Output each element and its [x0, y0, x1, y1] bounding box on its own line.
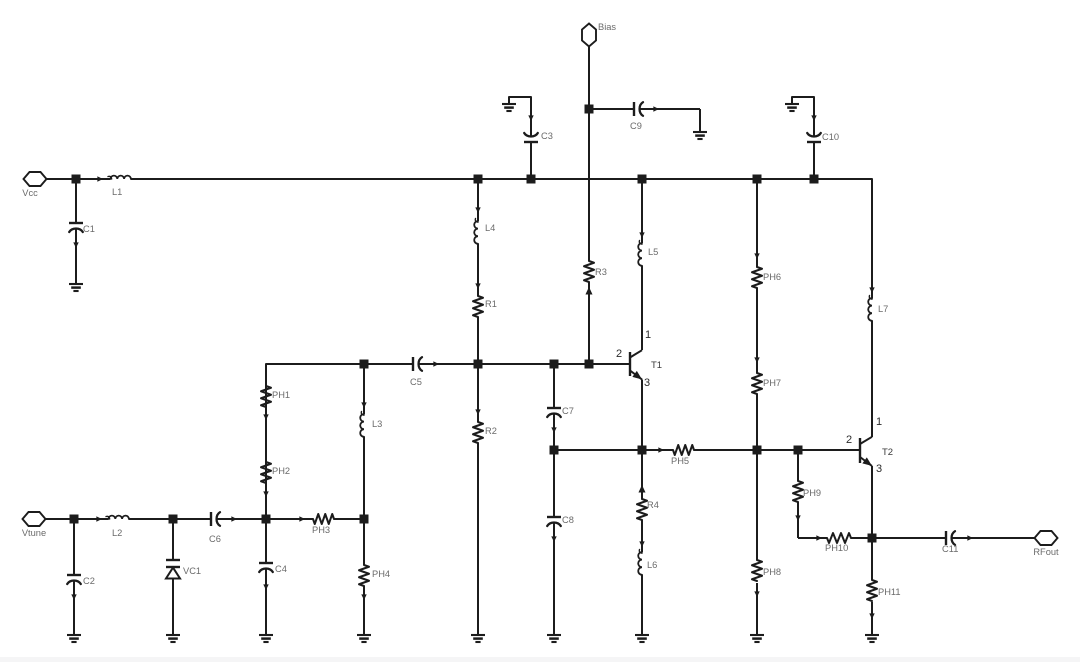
svg-text:PH10: PH10	[825, 543, 848, 553]
wire corner PH1 to mid line	[266, 364, 364, 519]
varactor diode VC1	[172, 519, 174, 560]
resistor R2	[477, 364, 479, 422]
resistor PH1	[261, 386, 271, 407]
resistor R1	[473, 296, 483, 317]
svg-text:C11: C11	[942, 544, 958, 554]
node PH9 top	[794, 446, 803, 455]
svg-text:C6: C6	[209, 534, 221, 544]
resistor PH5	[659, 448, 663, 452]
ground above C10	[785, 103, 799, 105]
port Bias	[582, 24, 596, 47]
node R3 bottom	[585, 360, 594, 369]
svg-text:C9: C9	[630, 121, 642, 131]
inductor L3	[363, 364, 365, 414]
svg-text:PH7: PH7	[763, 378, 781, 388]
node L5 top on rail	[638, 175, 647, 184]
ground below R2	[471, 634, 485, 636]
svg-text:C10: C10	[822, 132, 839, 142]
wire mid line right	[478, 363, 629, 365]
ground below L6	[635, 634, 649, 636]
resistor PH3	[266, 518, 313, 520]
resistor PH2	[261, 462, 271, 483]
node L3 top	[360, 360, 369, 369]
svg-text:VC1: VC1	[183, 566, 201, 576]
transistor T2	[859, 438, 861, 463]
node C7 top	[550, 360, 559, 369]
resistor PH11	[871, 538, 873, 580]
resistor PH8	[756, 450, 758, 560]
node PH4/L3	[360, 515, 369, 524]
transistor T1	[629, 352, 631, 376]
svg-text:L5: L5	[648, 247, 658, 257]
svg-text:Vcc: Vcc	[22, 188, 38, 198]
svg-text:L2: L2	[112, 528, 122, 538]
svg-text:PH6: PH6	[763, 272, 781, 282]
inductor L1	[76, 178, 110, 180]
svg-text:PH4: PH4	[372, 569, 390, 579]
resistor R4	[639, 486, 645, 492]
svg-text:PH3: PH3	[312, 525, 330, 535]
wire C3 ground stub	[509, 97, 531, 135]
node R1/R2	[474, 360, 483, 369]
svg-text:PH9: PH9	[803, 488, 821, 498]
svg-text:C5: C5	[410, 377, 422, 387]
node PH7 bottom	[753, 446, 762, 455]
resistor PH7	[755, 358, 759, 362]
node C4/PH1	[262, 515, 271, 524]
svg-text:C7: C7	[562, 406, 574, 416]
ground below PH8	[750, 634, 764, 636]
svg-text:PH5: PH5	[671, 456, 689, 466]
svg-text:PH2: PH2	[272, 466, 290, 476]
capacitor C6	[173, 518, 211, 520]
wire emitter line left	[554, 449, 673, 451]
svg-text:2: 2	[616, 348, 622, 360]
svg-text:RFout: RFout	[1033, 547, 1059, 557]
node PH6 top on rail	[753, 175, 762, 184]
ground below C4	[259, 634, 273, 636]
wire Bias down	[588, 47, 590, 262]
capacitor C1	[75, 179, 77, 223]
svg-text:R2: R2	[485, 426, 497, 436]
ground above C3	[502, 103, 516, 105]
resistor PH10	[798, 537, 827, 539]
inductor L7	[870, 288, 874, 292]
wire C10 ground stub	[792, 97, 814, 135]
svg-text:L4: L4	[485, 223, 495, 233]
svg-text:R3: R3	[595, 267, 607, 277]
capacitor C3	[529, 116, 533, 120]
svg-text:C4: C4	[275, 564, 287, 574]
inductor L4	[477, 179, 479, 221]
ground below C8	[547, 634, 561, 636]
inductor L6	[640, 542, 644, 546]
wire Vcc rail	[131, 178, 872, 180]
capacitor C2	[73, 519, 75, 575]
svg-text:1: 1	[645, 329, 651, 341]
svg-text:L7: L7	[878, 304, 888, 314]
svg-text:2: 2	[846, 434, 852, 446]
capacitor C5	[412, 357, 414, 371]
node emitter line T1	[638, 446, 647, 455]
node Vcc rail left	[72, 175, 81, 184]
svg-text:R1: R1	[485, 299, 497, 309]
wire T2 emitter down	[871, 466, 873, 538]
wire mid line left	[364, 363, 413, 365]
wire Vtune to node	[46, 518, 75, 520]
svg-text:C2: C2	[83, 576, 95, 586]
svg-text:T1: T1	[651, 360, 662, 371]
svg-text:PH8: PH8	[763, 567, 781, 577]
resistor PH4	[363, 519, 365, 565]
svg-text:3: 3	[876, 463, 882, 475]
port RFout	[1035, 531, 1058, 545]
capacitor C10	[812, 116, 816, 120]
capacitor C9	[589, 108, 634, 110]
resistor PH9	[797, 450, 799, 481]
node Vtune	[70, 515, 79, 524]
ground below C1	[69, 283, 83, 285]
svg-text:T2: T2	[882, 447, 893, 458]
svg-text:L3: L3	[372, 419, 382, 429]
svg-text:R4: R4	[647, 500, 659, 510]
wire T1 emitter down	[641, 380, 643, 451]
capacitor C7	[553, 364, 555, 408]
resistor PH6	[756, 179, 758, 267]
svg-text:1: 1	[876, 416, 882, 428]
svg-text:Bias: Bias	[598, 22, 616, 32]
node Bias/C9	[585, 105, 594, 114]
capacitor C8	[553, 450, 555, 517]
inductor L5	[641, 179, 643, 243]
node VC1	[169, 515, 178, 524]
capacitor C11	[872, 537, 946, 539]
inductor L2	[74, 518, 108, 520]
node output	[868, 534, 877, 543]
ground below PH11	[865, 634, 879, 636]
svg-text:PH11: PH11	[878, 587, 901, 597]
svg-text:3: 3	[644, 377, 650, 389]
ground below PH4	[357, 634, 371, 636]
port Vcc	[24, 172, 47, 186]
node L4 top on rail	[474, 175, 483, 184]
ground below C2	[67, 634, 81, 636]
ground below VC1	[166, 634, 180, 636]
resistor R3	[584, 261, 594, 282]
wire Vcc to node	[47, 178, 77, 180]
node C8 top	[550, 446, 559, 455]
svg-text:L6: L6	[647, 560, 657, 570]
svg-text:C3: C3	[541, 131, 553, 141]
svg-text:PH1: PH1	[272, 390, 290, 400]
svg-text:C1: C1	[83, 224, 95, 234]
wire rail corner down	[814, 179, 872, 298]
svg-text:Vtune: Vtune	[22, 528, 46, 538]
bottom band	[0, 657, 1080, 662]
svg-text:C8: C8	[562, 515, 574, 525]
ground below C9	[693, 131, 707, 133]
svg-text:L1: L1	[112, 187, 122, 197]
capacitor C4	[265, 519, 267, 563]
node C10 on rail	[810, 175, 819, 184]
node C3 on rail	[527, 175, 536, 184]
port Vtune	[23, 512, 46, 526]
